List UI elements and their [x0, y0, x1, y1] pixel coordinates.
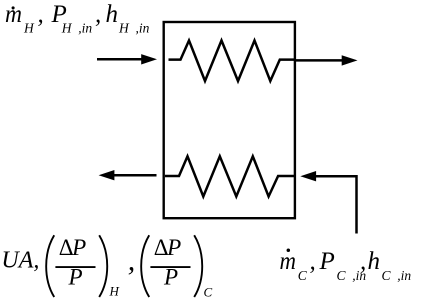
open paren: [46, 235, 54, 297]
svg-text:C ,in: C ,in: [382, 268, 412, 283]
fraction bar: [150, 266, 190, 268]
svg-text:,: ,: [360, 248, 366, 275]
hot inlet label m-dot H: [5, 1, 150, 36]
cold inlet label m-dot C: [280, 248, 412, 283]
fraction bar: [55, 266, 95, 268]
UA label: [1, 248, 39, 274]
pressure-drop group C: [141, 235, 212, 300]
svg-text:ΔP: ΔP: [59, 235, 86, 260]
svg-text:P: P: [319, 248, 335, 275]
svg-text:,: ,: [128, 244, 136, 277]
cold outlet arrow: [114, 174, 157, 177]
svg-text:h: h: [106, 1, 119, 28]
pressure-drop group H: [46, 235, 119, 299]
svg-text:h: h: [368, 248, 381, 275]
open paren: [141, 235, 149, 297]
svg-text:,: ,: [95, 1, 101, 28]
cold inlet arrowhead: [300, 171, 316, 181]
cold inlet wire: [316, 176, 357, 233]
close paren: [194, 235, 202, 297]
resistor hot side (top zigzag): [169, 41, 295, 82]
svg-text:H ,in: H ,in: [61, 20, 93, 35]
svg-text:H ,in: H ,in: [118, 20, 150, 35]
resistor cold side (bottom zigzag): [165, 156, 295, 196]
svg-text:UA,: UA,: [1, 248, 39, 274]
svg-text:,: ,: [38, 1, 44, 28]
svg-text:P: P: [68, 264, 83, 289]
svg-text:,: ,: [310, 248, 316, 275]
svg-text:ΔP: ΔP: [154, 235, 181, 260]
svg-text:m: m: [5, 1, 22, 28]
svg-text:C: C: [204, 285, 213, 300]
hot inlet arrow: [97, 58, 142, 61]
hot outlet arrow: [296, 59, 343, 62]
svg-text:H: H: [23, 20, 35, 35]
svg-text:H: H: [109, 284, 120, 299]
svg-text:C: C: [298, 268, 308, 283]
close paren: [99, 235, 107, 297]
svg-text:P: P: [163, 264, 178, 289]
heat exchanger box: [164, 22, 295, 218]
